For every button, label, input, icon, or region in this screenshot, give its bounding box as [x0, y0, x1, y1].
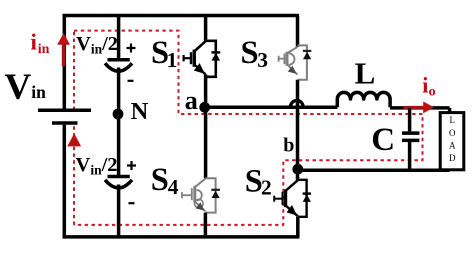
svg-text:3: 3 [257, 48, 268, 72]
capacitor C2 (Vin/2 bottom): curved plate [105, 180, 132, 188]
svg-text:4: 4 [168, 175, 179, 199]
svg-text:a: a [185, 85, 198, 115]
svg-text:in: in [38, 42, 50, 57]
polarity - of C2 [129, 202, 135, 204]
capacitor C1 (Vin/2 top): straight plate [108, 58, 130, 62]
IGBT S2 [274, 180, 311, 217]
polarity - of C1 [128, 80, 134, 82]
arrow iin (red, on battery wire) [62, 44, 66, 66]
load box [440, 113, 464, 170]
node a [199, 102, 210, 113]
svg-text:2: 2 [261, 175, 272, 199]
wire: capacitor branch upper [117, 16, 121, 59]
capacitor C2 (Vin/2 bottom): straight plate [108, 175, 130, 179]
svg-text:i: i [422, 73, 428, 98]
wire: inductor to load [390, 108, 450, 113]
wire: S1 emitter to S4 collector (through node a) [204, 74, 208, 178]
node N [113, 109, 124, 120]
polarity + of C1 [127, 44, 136, 53]
wire: bottom rail [63, 235, 300, 239]
svg-text:o: o [429, 85, 436, 100]
svg-text:D: D [449, 153, 456, 163]
battery Vin: short negative plate [52, 121, 78, 125]
node b [292, 164, 303, 175]
wire: S3 emitter down to node b [296, 80, 300, 180]
svg-text:A: A [449, 141, 456, 151]
wire: node a to inductor [209, 106, 337, 110]
current loop path (red dashed) [74, 31, 423, 225]
wire: node b to load bottom [298, 169, 450, 173]
wire crossing hop over S3/S2 branch [290, 101, 303, 108]
svg-text:S: S [241, 35, 259, 71]
capacitor C bottom lead [408, 142, 412, 170]
wire: S1 branch top [204, 16, 208, 41]
svg-text:O: O [449, 128, 456, 138]
capacitor C1 (Vin/2 top): curved plate [105, 63, 132, 71]
arrow: battery current (red, below battery) [67, 133, 81, 146]
svg-text:L: L [355, 56, 376, 91]
IGBT S1 [184, 41, 221, 77]
wire: battery branch lower [63, 125, 67, 239]
wire: capacitor branch lower [117, 185, 121, 239]
wire: S4 branch bottom [204, 213, 208, 239]
IGBT S3 (gray, off) [279, 45, 312, 79]
wire: battery branch upper [63, 14, 67, 109]
IGBT S4 (gray, off) [182, 178, 220, 212]
wire: capacitor branch middle [117, 68, 121, 177]
svg-text:L: L [449, 115, 455, 125]
svg-text:i: i [31, 29, 38, 54]
inductor L [337, 92, 390, 107]
capacitor C (output filter): top lead [408, 108, 412, 131]
svg-text:S: S [151, 162, 169, 198]
capacitor C plates [402, 133, 419, 140]
svg-text:b: b [283, 134, 294, 156]
wire: S2 branch bottom [296, 217, 300, 239]
svg-text:C: C [371, 122, 395, 158]
svg-text:1: 1 [167, 48, 178, 72]
battery Vin: long positive plate [38, 109, 91, 113]
wire: top rail [63, 14, 299, 18]
svg-text:N: N [131, 98, 149, 125]
wire: S3 branch top [296, 16, 300, 47]
arrow io (red, on output wire) [404, 106, 425, 109]
polarity + of C2 [127, 161, 136, 170]
